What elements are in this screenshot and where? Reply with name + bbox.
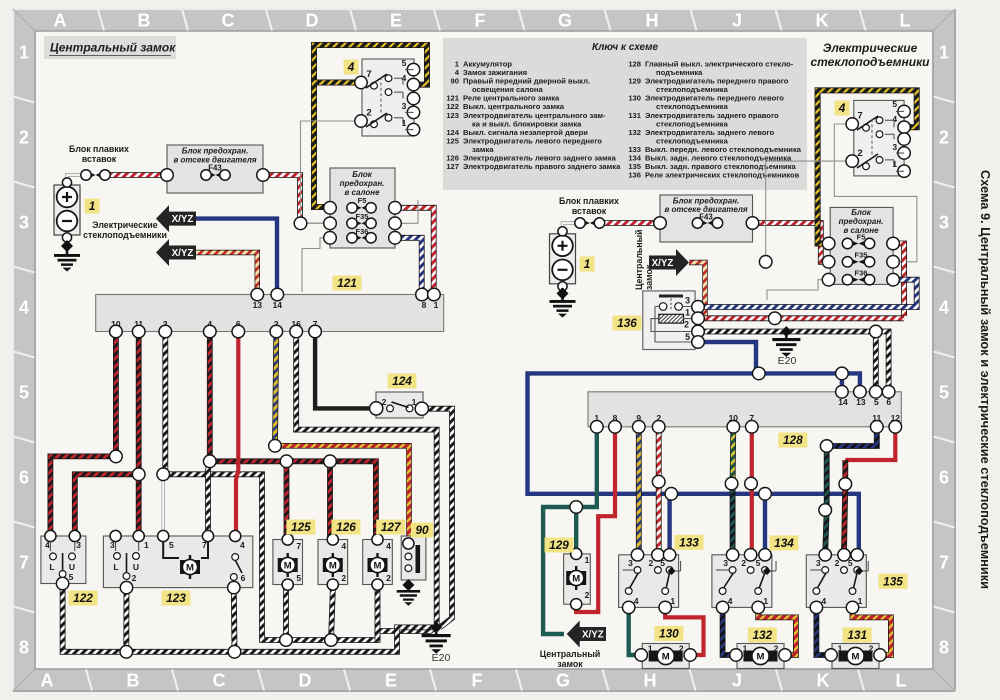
svg-text:122: 122 [73, 591, 93, 605]
wire fusible link2 to F43 [601, 220, 660, 226]
wire blue to pin14 [840, 373, 844, 391]
svg-text:2: 2 [857, 148, 862, 159]
svg-text:M: M [662, 652, 670, 663]
lock motor 125 [273, 534, 303, 590]
wire 127 pin 2 down [375, 585, 381, 640]
svg-text:1: 1 [648, 644, 653, 654]
svg-text:Блок плавких: Блок плавких [69, 144, 129, 154]
wire 123 pin 2 down [123, 588, 129, 652]
wire pin 11 to 122 pin 3 [75, 332, 139, 536]
svg-text:Ключ к схеме: Ключ к схеме [592, 42, 659, 53]
svg-text:4: 4 [939, 298, 949, 318]
svg-text:J: J [732, 671, 742, 691]
svg-text:Центральный: Центральный [634, 229, 644, 290]
wire branch to 126 pin 4 [327, 461, 333, 539]
text central lock vertical [634, 229, 654, 290]
svg-text:1: 1 [685, 308, 690, 318]
wire branch to 128 pin6 [876, 332, 889, 392]
svg-text:X/YZ: X/YZ [172, 214, 194, 225]
svg-text:2: 2 [386, 573, 391, 583]
text window lifters [83, 220, 167, 240]
svg-text:4: 4 [386, 541, 391, 551]
svg-text:F5: F5 [857, 233, 866, 242]
wire F35 right wire [395, 200, 418, 223]
svg-text:Центральный замок: Центральный замок [50, 41, 176, 55]
svg-text:5: 5 [169, 540, 174, 550]
svg-text:2: 2 [341, 573, 346, 583]
side caption [978, 170, 993, 589]
node F35 junction right [759, 255, 772, 268]
svg-text:1: 1 [19, 43, 29, 63]
wire 122 pin 5 down [63, 584, 434, 652]
svg-text:8: 8 [19, 638, 29, 658]
svg-text:125: 125 [446, 136, 459, 145]
svg-text:H: H [644, 671, 657, 691]
svg-text:6: 6 [939, 468, 949, 488]
relay 136 [643, 291, 705, 350]
svg-text:M: M [374, 560, 382, 571]
label 132 [748, 628, 777, 643]
wire F43-2 to F35 feed [753, 223, 829, 262]
wire F36 feed wire [302, 238, 329, 292]
svg-text:130: 130 [628, 94, 641, 103]
svg-text:5: 5 [69, 572, 74, 582]
wire pin 2 wire [275, 332, 276, 446]
lock motor 127 [363, 534, 393, 590]
wire 123 pin 6 down [231, 588, 237, 652]
label 124 [388, 374, 417, 389]
X/YZ arrow upper [156, 205, 196, 232]
svg-text:Электрические: Электрические [823, 41, 918, 55]
svg-text:D: D [299, 671, 312, 691]
svg-text:Блок предохран.: Блок предохран. [182, 147, 249, 156]
svg-text:127: 127 [381, 520, 402, 534]
battery 1 [54, 178, 80, 242]
wire battery2 to fusible link [563, 223, 577, 231]
svg-text:7: 7 [939, 553, 949, 573]
svg-text:1: 1 [585, 555, 590, 565]
text fusible link [69, 144, 129, 164]
svg-text:Схема 9. Центральный замок и э: Схема 9. Центральный замок и электрическ… [978, 170, 993, 589]
title: right diagram [811, 41, 931, 69]
fuse box F43 left [161, 145, 270, 193]
label 136 [613, 316, 642, 331]
svg-text:8: 8 [939, 638, 949, 658]
svg-text:вставок: вставок [82, 154, 117, 164]
X/YZ arrow lower [156, 239, 196, 266]
wire teal to 129 pin1 [574, 507, 578, 552]
svg-text:7: 7 [296, 541, 301, 551]
window motor 129 [564, 548, 591, 610]
svg-text:1: 1 [763, 596, 768, 606]
wire 129 pin2 red [574, 605, 578, 612]
ground switch 90 [397, 579, 420, 606]
junction nodes right [570, 325, 882, 516]
wire switch 90 ground stem [407, 568, 410, 585]
svg-text:2: 2 [741, 558, 746, 568]
svg-text:4: 4 [822, 596, 827, 606]
svg-text:132: 132 [752, 628, 772, 642]
wire red-white to 136 pin1 [700, 315, 904, 321]
wire ignition feed loop [314, 45, 427, 207]
wire term2-2 wire [766, 161, 851, 260]
svg-text:3: 3 [723, 558, 728, 568]
svg-text:136: 136 [617, 316, 637, 330]
svg-text:3: 3 [628, 558, 633, 568]
svg-text:1: 1 [670, 596, 675, 606]
svg-text:132: 132 [628, 128, 641, 137]
svg-text:4: 4 [634, 596, 639, 606]
svg-text:H: H [646, 11, 659, 31]
label 4 left [344, 60, 359, 75]
svg-text:замок: замок [557, 659, 583, 669]
svg-text:Блок: Блок [851, 208, 872, 217]
svg-text:129: 129 [549, 538, 569, 552]
svg-text:5: 5 [848, 558, 853, 568]
svg-text:B: B [127, 671, 140, 691]
svg-text:X/YZ: X/YZ [172, 248, 194, 259]
window motor 132 [730, 644, 791, 669]
svg-text:M: M [757, 652, 765, 663]
wire blue to pin13 [842, 373, 860, 391]
svg-text:L: L [49, 562, 54, 572]
svg-text:F5: F5 [358, 196, 367, 205]
junction nodes [110, 440, 338, 659]
svg-text:5: 5 [685, 332, 690, 342]
svg-text:131: 131 [628, 111, 641, 120]
lock actuator 122 [41, 530, 86, 589]
svg-text:7: 7 [366, 69, 371, 80]
wire blue-black 128 pin11 [827, 427, 877, 446]
svg-text:Электродвигатель правого задне: Электродвигатель правого заднего замка [463, 162, 621, 171]
svg-text:1: 1 [858, 596, 863, 606]
svg-text:2: 2 [366, 108, 371, 119]
label 129 [545, 538, 574, 553]
svg-text:L: L [113, 562, 118, 572]
wire red 128 pin7 [750, 427, 754, 553]
svg-text:F: F [472, 671, 483, 691]
wire ignition term7 branch [314, 80, 360, 86]
svg-text:3: 3 [402, 101, 407, 111]
wire branch to 125 pin 7 [284, 461, 290, 539]
svg-text:5: 5 [939, 383, 949, 403]
svg-text:Блок: Блок [352, 170, 373, 179]
svg-text:5: 5 [756, 558, 761, 568]
svg-text:123: 123 [166, 591, 186, 605]
svg-text:3: 3 [816, 558, 821, 568]
wire yr to 136 pin 1 [689, 263, 705, 319]
svg-text:121: 121 [337, 276, 357, 290]
svg-text:1: 1 [743, 644, 748, 654]
svg-text:X/YZ: X/YZ [582, 629, 604, 640]
svg-text:6: 6 [241, 573, 246, 583]
svg-text:1: 1 [402, 118, 407, 128]
svg-text:2: 2 [132, 573, 137, 583]
wire pin 6 to 123 pin 4 [236, 332, 238, 536]
svg-text:135: 135 [883, 575, 903, 589]
door switch 90 [401, 536, 426, 580]
svg-text:4: 4 [347, 60, 355, 74]
wire 136 pin2 ground wire [700, 329, 876, 335]
svg-text:7: 7 [19, 553, 29, 573]
wire F5-2 down [893, 244, 904, 317]
svg-text:A: A [54, 11, 67, 31]
svg-text:F: F [475, 11, 486, 31]
switch 124 [370, 392, 429, 418]
svg-text:G: G [556, 671, 570, 691]
wire red 128 pin8 [576, 427, 615, 612]
label 90 [411, 523, 433, 538]
wire wire to switch 90 [275, 446, 409, 541]
label 126 [332, 520, 361, 535]
wire pin 16 to ground bus [296, 332, 437, 624]
label 134 [770, 535, 799, 550]
svg-text:2: 2 [19, 128, 29, 148]
svg-text:4: 4 [19, 298, 29, 318]
wire white wire to 123 pin 5 [161, 476, 164, 536]
main switch 128 [588, 386, 902, 434]
svg-text:90: 90 [415, 523, 429, 537]
label 135 [879, 574, 908, 589]
svg-text:1: 1 [838, 644, 843, 654]
wire pin 7 to switch 124 [315, 332, 375, 408]
svg-text:G: G [558, 11, 572, 31]
svg-text:3: 3 [892, 142, 897, 152]
wire 134 pin1 to 132 [758, 606, 796, 655]
svg-text:2: 2 [679, 644, 684, 654]
svg-text:2: 2 [649, 558, 654, 568]
text fusible link right [559, 196, 619, 216]
svg-text:4: 4 [728, 596, 733, 606]
svg-text:D: D [306, 11, 319, 31]
node F35 junction [294, 217, 307, 230]
wire 136 pin2 to 128 pin5 [873, 332, 879, 392]
svg-text:5: 5 [402, 58, 407, 68]
svg-text:5: 5 [296, 573, 301, 583]
wire F5 to pin 1 [395, 208, 434, 293]
svg-text:M: M [329, 560, 337, 571]
wire pin 11 branch to 123 pin 1 [136, 474, 142, 536]
svg-text:J: J [732, 11, 742, 31]
svg-text:4: 4 [838, 101, 846, 115]
svg-text:5: 5 [892, 99, 897, 109]
svg-text:L: L [900, 11, 911, 31]
relay 121 [96, 288, 444, 338]
svg-text:E: E [390, 11, 402, 31]
label 122 [69, 591, 98, 606]
label 133 [675, 535, 704, 550]
wire 136 pin5 blue [700, 342, 756, 373]
svg-text:3: 3 [19, 213, 29, 233]
svg-text:125: 125 [291, 520, 311, 534]
svg-text:X/YZ: X/YZ [652, 258, 674, 269]
svg-text:Электрические: Электрические [92, 220, 157, 230]
X/YZ arrow right diagram [649, 249, 689, 276]
svg-text:M: M [186, 562, 194, 573]
svg-text:3: 3 [685, 296, 690, 306]
label 4 right [835, 101, 850, 116]
ground E20 left [422, 622, 451, 664]
svg-text:5: 5 [19, 383, 29, 403]
ignition switch 4 left [355, 58, 420, 136]
wire blue drop 133 pin5 [667, 494, 671, 553]
ground battery right [550, 288, 576, 318]
svg-text:U: U [133, 562, 139, 572]
svg-text:стеклоподъемники: стеклоподъемники [83, 230, 167, 240]
ground E20 right [772, 326, 800, 367]
label 127 [376, 520, 405, 535]
wire teal 128 pin1 [543, 427, 597, 634]
wire 133 pin4 to 130 [629, 606, 642, 655]
wire yellow-red wire to pin 13 [196, 253, 257, 294]
svg-text:1: 1 [89, 199, 96, 213]
svg-text:Центральный: Центральный [540, 649, 601, 659]
svg-text:131: 131 [847, 628, 867, 642]
wire blue bus upper [528, 373, 859, 554]
svg-text:5: 5 [660, 558, 665, 568]
label 125 [286, 520, 315, 535]
window motor 130 [635, 644, 696, 669]
svg-text:K: K [816, 11, 829, 31]
wire term2 wire [301, 121, 361, 222]
wire pink 128 pin2 [656, 427, 662, 553]
window switch 134 [712, 549, 776, 614]
svg-text:предохран.: предохран. [340, 179, 385, 188]
wire 133 pin1 to 130 [665, 606, 703, 655]
wire F36-2 feed [767, 280, 828, 300]
wire 135 pin1 to 131 [853, 606, 891, 655]
svg-text:133: 133 [679, 536, 699, 550]
svg-text:C: C [222, 11, 235, 31]
svg-text:Реле электрических стеклоподъе: Реле электрических стеклоподъемников [645, 171, 800, 180]
legend box [443, 38, 807, 190]
svg-text:E: E [385, 671, 397, 691]
text central lock bottom [540, 649, 601, 669]
svg-text:B: B [138, 11, 151, 31]
svg-text:1: 1 [584, 257, 591, 271]
wire blue wire to pin 14 [196, 219, 277, 293]
svg-text:128: 128 [628, 60, 641, 69]
svg-text:K: K [817, 671, 830, 691]
wire battery to fusible link [67, 175, 80, 183]
svg-text:M: M [852, 652, 860, 663]
label 131 [843, 628, 872, 643]
svg-text:стеклоподъемники: стеклоподъемники [811, 55, 931, 69]
svg-text:M: M [572, 573, 580, 584]
fuse box salon right [822, 207, 899, 286]
wire red-black 135 pin2 [844, 460, 845, 553]
window motor 131 [825, 644, 886, 669]
wire 134 pin4 to 132 [723, 606, 737, 655]
svg-text:C: C [213, 671, 226, 691]
wire ignition2 feed loop [818, 90, 917, 243]
battery 1 right [550, 227, 576, 291]
X/YZ arrow bottom [567, 621, 606, 648]
svg-text:2: 2 [585, 590, 590, 600]
wire 125 pin 5 down [283, 585, 289, 640]
label 130 [654, 626, 683, 641]
svg-text:1: 1 [144, 540, 149, 550]
lock motor 123 [103, 530, 252, 593]
wire switch 124 to ground [423, 409, 452, 628]
wire F36-2 to 136 pin 3 [700, 280, 917, 307]
wire teal-black to 134 pin3 [730, 485, 736, 553]
svg-text:2: 2 [774, 644, 779, 654]
svg-text:3: 3 [939, 213, 949, 233]
svg-text:1: 1 [892, 159, 897, 169]
window switch 135 [806, 549, 868, 614]
wire pin 3 to bus A [165, 332, 436, 640]
svg-text:123: 123 [446, 111, 459, 120]
svg-text:127: 127 [446, 162, 459, 171]
wire F36 to pin 8 [395, 238, 422, 293]
svg-text:130: 130 [659, 627, 679, 641]
svg-text:2: 2 [869, 644, 874, 654]
label 128 [778, 433, 807, 448]
svg-text:предохран.: предохран. [839, 217, 884, 226]
label 1 [85, 199, 100, 214]
wire teal-black 135 pin3 [825, 446, 827, 553]
svg-text:вставок: вставок [572, 206, 607, 216]
wire fusible link to F43 [106, 172, 167, 178]
svg-text:2: 2 [684, 320, 689, 330]
svg-text:128: 128 [783, 433, 803, 447]
wire 126 pin 2 down [331, 585, 333, 640]
svg-text:E20: E20 [432, 652, 451, 664]
wire pin 10 to 122 pin 4 [50, 332, 116, 536]
label 123 [162, 591, 191, 606]
ignition switch 4 right [846, 99, 910, 177]
svg-text:L: L [896, 671, 907, 691]
svg-text:4: 4 [240, 540, 245, 550]
lock motor 126 [318, 534, 348, 590]
svg-text:Блок плавких: Блок плавких [559, 196, 619, 206]
window switch 133 [619, 549, 681, 614]
wire F43 to F35 feed [263, 175, 300, 221]
wire pin 4 distribution [210, 332, 376, 539]
svg-text:134: 134 [774, 536, 794, 550]
svg-text:124: 124 [392, 374, 412, 388]
node connector red wire [769, 312, 782, 325]
fuse box F43 right [654, 195, 759, 242]
title: left diagram [44, 36, 176, 59]
ground battery left [54, 240, 80, 272]
wire branch to 123 pin 7 [208, 461, 210, 536]
svg-text:E20: E20 [778, 355, 797, 367]
wire term7-2 wire [834, 124, 917, 262]
wire blue drop 134 pin5 [763, 494, 767, 553]
svg-text:6: 6 [19, 468, 29, 488]
svg-text:4: 4 [341, 541, 346, 551]
svg-text:7: 7 [857, 111, 862, 122]
svg-text:1: 1 [939, 43, 949, 63]
wire yellow-green 128 pin10 [730, 427, 737, 482]
wire yellow-black 128 pin9 [636, 427, 642, 553]
svg-text:U: U [69, 562, 75, 572]
wire 135 pin4 to 131 [816, 606, 832, 655]
svg-text:126: 126 [336, 520, 356, 534]
svg-text:2: 2 [835, 558, 840, 568]
fusible link right [575, 218, 605, 228]
wire feed to F35-left [300, 222, 329, 224]
svg-text:136: 136 [628, 171, 641, 180]
svg-text:A: A [41, 671, 54, 691]
svg-text:4: 4 [892, 114, 897, 124]
wire junction to F35 [301, 222, 329, 224]
svg-text:M: M [284, 560, 292, 571]
label 121 [333, 276, 362, 291]
wire red 128 pin12 [845, 427, 895, 460]
